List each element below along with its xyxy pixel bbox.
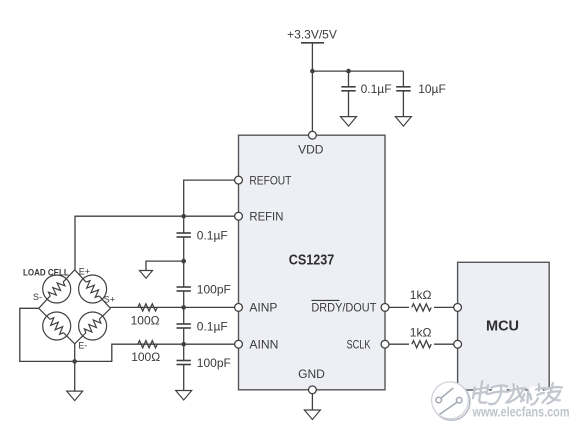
svg-text:LOAD CELL: LOAD CELL bbox=[23, 267, 69, 278]
wire E- to ground bbox=[74, 344, 76, 391]
svg-text:E+: E+ bbox=[79, 266, 90, 276]
junction at C1 tap bbox=[346, 69, 351, 74]
MCU pin 1 bbox=[454, 304, 462, 312]
wire GND down bbox=[311, 394, 313, 410]
capacitor C4 100pF bbox=[177, 282, 231, 307]
svg-text:SCLK: SCLK bbox=[347, 338, 371, 352]
svg-text:+3.3V/5V: +3.3V/5V bbox=[287, 28, 337, 42]
wire AINN route from bridge bottom bbox=[20, 308, 239, 361]
ground under IC bbox=[304, 410, 320, 420]
svg-text:0.1µF: 0.1µF bbox=[197, 319, 228, 333]
ground under filter line bbox=[176, 391, 192, 401]
IC U1 CS1237 body bbox=[239, 135, 386, 390]
wire REFIN to bridge E+ bbox=[75, 216, 239, 270]
svg-text:100pF: 100pF bbox=[197, 356, 231, 370]
pin REFIN bbox=[235, 212, 243, 220]
wire VDD vertical bbox=[311, 43, 313, 131]
svg-text:MCU: MCU bbox=[486, 319, 519, 335]
char fa bbox=[506, 384, 527, 406]
pin VDD bbox=[309, 131, 317, 139]
resistor R3 1k bbox=[409, 288, 434, 312]
MCU pin 2 bbox=[454, 340, 462, 348]
svg-text:VDD: VDD bbox=[298, 142, 324, 156]
capacitor C5 0.1uF bbox=[177, 319, 228, 344]
power rail bar symbol bbox=[301, 42, 324, 44]
junction ground stub bbox=[181, 259, 186, 264]
wire DRDY to MCU bbox=[389, 306, 458, 308]
svg-text:0.1µF: 0.1µF bbox=[361, 82, 392, 96]
resistor R2 100ohm bbox=[138, 341, 157, 348]
svg-text:www.elecfans.com: www.elecfans.com bbox=[472, 405, 570, 420]
strain gauge bottom-right bbox=[79, 312, 107, 340]
junction at VDD rail bbox=[310, 69, 315, 74]
junction E- bottom rail bbox=[72, 359, 77, 364]
svg-text:100pF: 100pF bbox=[197, 282, 231, 296]
svg-text:CS1237: CS1237 bbox=[289, 253, 335, 269]
svg-text:100Ω: 100Ω bbox=[131, 350, 160, 364]
wire AINP from bridge S+ bbox=[111, 306, 239, 308]
pin AINP bbox=[235, 304, 243, 312]
overline on DRDY bbox=[312, 299, 340, 301]
pin SCLK bbox=[381, 340, 389, 348]
load cell bridge diamond wires bbox=[39, 270, 111, 344]
capacitor C1 0.1uF bbox=[341, 71, 391, 117]
svg-text:100Ω: 100Ω bbox=[131, 314, 160, 328]
svg-text:E-: E- bbox=[78, 340, 87, 350]
strain gauge top-right bbox=[79, 275, 107, 303]
pin AINN bbox=[235, 340, 243, 348]
ground under bridge bbox=[67, 391, 83, 401]
capacitor C3 0.1uF bbox=[177, 228, 228, 261]
svg-text:REFIN: REFIN bbox=[249, 210, 283, 224]
wire top rail horizontal bbox=[312, 70, 403, 72]
filter line vertical wire bbox=[183, 216, 185, 233]
svg-text:1kΩ: 1kΩ bbox=[410, 288, 432, 302]
pin DRDY/DOUT bbox=[381, 304, 389, 312]
strain gauge top-left bbox=[43, 275, 71, 303]
char shao bbox=[520, 384, 548, 406]
wire bbox=[183, 307, 185, 324]
capacitor C6 100pF bbox=[177, 356, 231, 391]
svg-text:GND: GND bbox=[298, 367, 325, 381]
svg-text:AINP: AINP bbox=[249, 301, 277, 315]
capacitor C2 10uF bbox=[396, 71, 446, 117]
junction REFIN / filter line bbox=[181, 214, 186, 219]
pin REFOUT bbox=[235, 176, 243, 184]
ground under C1 bbox=[341, 117, 357, 127]
MCU body bbox=[458, 262, 550, 390]
svg-text:S-: S- bbox=[33, 292, 42, 302]
strain gauge bottom-left bbox=[43, 312, 71, 340]
pin GND bbox=[309, 386, 317, 394]
svg-text:DRDY/DOUT: DRDY/DOUT bbox=[311, 301, 377, 315]
junction AINP bbox=[181, 305, 186, 310]
char you bbox=[543, 383, 563, 406]
svg-text:AINN: AINN bbox=[249, 338, 278, 352]
svg-text:S+: S+ bbox=[104, 295, 115, 305]
char zi bbox=[487, 385, 509, 406]
svg-text:10µF: 10µF bbox=[418, 82, 446, 96]
watermark chinese text approximation bbox=[471, 381, 563, 406]
ground under C2 bbox=[395, 117, 411, 127]
wire SCLK to MCU bbox=[389, 343, 458, 345]
resistor R4 1k bbox=[409, 326, 434, 349]
wire bbox=[183, 344, 185, 360]
svg-text:REFOUT: REFOUT bbox=[249, 173, 292, 187]
ground mid bbox=[139, 271, 152, 279]
wire ground stub bbox=[146, 261, 184, 270]
svg-text:0.1µF: 0.1µF bbox=[197, 228, 228, 242]
svg-text:1kΩ: 1kΩ bbox=[410, 326, 432, 340]
junction AINN bbox=[181, 342, 186, 347]
watermark logo bbox=[432, 382, 470, 420]
wire REFOUT bbox=[184, 180, 239, 216]
resistor R1 100ohm bbox=[138, 304, 157, 311]
char dian bbox=[471, 381, 491, 406]
wire bbox=[183, 261, 185, 287]
